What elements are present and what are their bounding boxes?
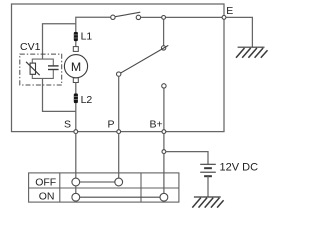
switch state table frame	[29, 173, 179, 202]
switch SW2 fixed contact upper	[161, 46, 165, 50]
inductor L2	[74, 93, 78, 103]
node P	[117, 130, 121, 134]
wire: motor to L2	[75, 83, 77, 94]
svg-text:M: M	[71, 60, 81, 74]
wire: SW2 lower contact down to B+ node	[163, 88, 165, 130]
junction node above SW2	[162, 16, 166, 20]
motor M1 body	[64, 55, 87, 78]
battery junction node	[162, 150, 166, 154]
switch SW1 blade (open)	[115, 12, 140, 17]
wire: CV1 top branch	[43, 24, 76, 59]
motor bottom terminal	[73, 78, 78, 83]
varistor RV1 diagonal	[26, 62, 40, 75]
wire: CV1 bottom to motor branch	[43, 78, 76, 111]
wire: P node down to switch table	[118, 134, 120, 179]
table OFF-row link S-P	[80, 181, 115, 183]
table ON-row link S-B+	[80, 196, 160, 198]
wire: battery junction to battery	[166, 152, 208, 165]
table contact S (ON row)	[72, 193, 80, 201]
wire: battery to ground	[207, 176, 209, 197]
wire: battery junction down into switch table	[163, 154, 165, 194]
switch SW1 fixed contact	[136, 15, 140, 19]
svg-text:S: S	[64, 119, 71, 131]
capacitor C1 plates	[48, 65, 59, 67]
CV1 internal loop wiring	[32, 59, 53, 78]
wire: S node down to switch table	[75, 134, 77, 179]
wire: E node to chassis ground	[226, 17, 252, 46]
switch SW2 blade (closed to upper contact)	[121, 45, 169, 73]
svg-text:B+: B+	[150, 119, 163, 131]
varistor RV1 body	[30, 63, 35, 74]
node E	[222, 16, 226, 20]
CV1 dashed enclosure	[20, 54, 62, 85]
svg-text:12V DC: 12V DC	[220, 161, 259, 173]
wire: B+ node down to battery junction	[163, 134, 165, 150]
table contact B+ (ON row)	[160, 193, 168, 201]
table contact S (OFF row)	[72, 178, 80, 186]
wire between OFF and ON contacts	[75, 186, 77, 193]
svg-text:E: E	[226, 5, 233, 17]
inductor L1	[74, 32, 78, 41]
wire: L1 branch up and to top switch	[76, 17, 111, 32]
wire: L1 to motor top terminal	[75, 41, 77, 47]
main enclosure box	[12, 4, 225, 132]
wire: SW2 pivot down to P node	[118, 76, 120, 130]
svg-text:L1: L1	[81, 31, 93, 43]
wire: L2 down to S node	[75, 103, 77, 131]
battery BT1	[200, 164, 216, 176]
ground (battery, chassis)	[192, 197, 223, 208]
wire: junction down to SW2 fixed contact	[163, 19, 165, 45]
switch SW2 fixed contact lower	[162, 84, 166, 88]
svg-text:OFF: OFF	[35, 177, 56, 189]
node S	[74, 130, 78, 134]
svg-text:P: P	[108, 119, 115, 131]
motor top terminal	[73, 47, 78, 52]
switch SW2 pivot contact	[117, 72, 121, 76]
ground (E, chassis)	[236, 47, 268, 58]
svg-text:ON: ON	[39, 190, 55, 202]
switch SW1 pivot contact	[111, 15, 115, 19]
node B+	[162, 130, 166, 134]
svg-text:CV1: CV1	[20, 41, 41, 53]
wire: top rail to E node	[141, 16, 224, 18]
svg-text:L2: L2	[81, 94, 93, 106]
table contact P (OFF row)	[115, 178, 123, 186]
